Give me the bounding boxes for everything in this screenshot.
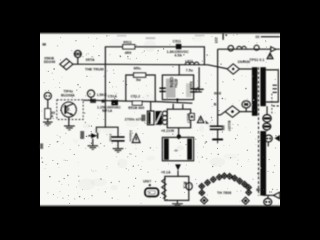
- wire L5KK stem: [90, 97, 92, 100]
- svg-text:MF1A: MF1A: [102, 109, 112, 113]
- inductor at IC left: [162, 111, 167, 116]
- wire R501 lead: [47, 119, 49, 122]
- transformer T502 right bar: [187, 139, 192, 160]
- wire top right rail: [218, 48, 271, 50]
- svg-text:SD246: SD246: [44, 60, 56, 64]
- svg-text:R511: R511: [123, 40, 131, 44]
- wire coil tail down: [198, 67, 200, 88]
- terminal E501 (circle): [74, 51, 81, 58]
- warning triangle top right: [267, 53, 273, 59]
- transformer T501 primary bar: [252, 67, 258, 116]
- svg-text:R51B 860: R51B 860: [128, 106, 144, 110]
- wire stub C517: [150, 102, 152, 111]
- terminal circle on rail 1: [228, 45, 234, 51]
- junction blob: [90, 99, 96, 103]
- svg-text:4.5A: 4.5A: [174, 53, 182, 57]
- faint header text: [117, 35, 127, 37]
- transformer T501 core (dashed): [258, 67, 260, 195]
- diode D512 (diamond): [225, 106, 240, 118]
- terminal circle above D512: [242, 101, 250, 108]
- svg-text:M5x.: M5x.: [134, 67, 142, 71]
- resistor R501: [45, 109, 51, 119]
- box HV: [266, 70, 278, 102]
- label near D502: [80, 131, 84, 139]
- transformer T501 secondary bar lower: [260, 131, 266, 196]
- svg-text:8: 8: [51, 114, 53, 118]
- stray mark 152: [222, 33, 224, 40]
- resistor R530 zigzag: [162, 178, 166, 198]
- svg-text:4R9: 4R9: [125, 51, 132, 55]
- svg-text:C51A: C51A: [108, 94, 118, 98]
- varistor Z501 (diamond): [60, 59, 73, 70]
- transformer T502 left bar: [164, 139, 169, 160]
- transformer T502 body: [162, 137, 193, 160]
- CRT socket pins: [199, 183, 205, 189]
- svg-text:05TA: 05TA: [86, 58, 95, 62]
- terminal tap 2: [263, 123, 271, 130]
- resistor R511: [123, 45, 135, 49]
- wire main bus: [83, 100, 192, 103]
- wire D512 to T501: [240, 111, 252, 113]
- wire top rail: [105, 47, 204, 100]
- wire cap branch: [178, 65, 180, 75]
- svg-text:B: B: [214, 103, 217, 107]
- transistor Q501: [61, 102, 76, 117]
- warning triangle right of IC: [197, 116, 203, 122]
- capacitor C515 plates: [159, 87, 165, 89]
- diode D503 block: [155, 111, 161, 125]
- stray label L: [40, 143, 43, 149]
- svg-text:6C8: 6C8: [214, 92, 222, 96]
- label small M: [141, 115, 145, 122]
- arrow down from T502: [175, 164, 181, 170]
- dashes horizontal right edge: [273, 105, 280, 107]
- warning triangle center: [132, 134, 140, 143]
- wire tap down: [266, 130, 268, 131]
- wire circle stem bottom: [267, 195, 269, 198]
- wire stub IC a: [172, 104, 174, 110]
- wire secondary bottom out: [263, 194, 273, 196]
- ground Q501: [64, 125, 75, 127]
- wire circle stem: [245, 108, 247, 112]
- svg-text:BU208A: BU208A: [61, 94, 75, 98]
- inductor L512: [237, 46, 247, 49]
- wire D502 branch: [96, 127, 105, 133]
- mark e-: [255, 36, 259, 39]
- wire bus 148: [217, 49, 219, 125]
- wire IC to T502: [178, 128, 180, 139]
- svg-text:C51C: C51C: [109, 134, 113, 143]
- polarity mark triangle: [196, 87, 200, 91]
- terminal circle on rail 2: [254, 45, 259, 50]
- wire top corner: [261, 36, 280, 38]
- svg-text:B115?: B115?: [227, 121, 231, 132]
- oval on R530 right: [186, 183, 192, 190]
- terminal J501: [44, 92, 51, 99]
- stray mark top-left: [42, 43, 46, 45]
- svg-text:TH 7806: TH 7806: [217, 191, 231, 195]
- wire E501 stem: [77, 57, 79, 64]
- arrow end of rail: [271, 47, 276, 52]
- wire D512 left: [218, 112, 226, 115]
- wire AC line: [73, 64, 227, 69]
- connector arrow 0: [274, 135, 280, 142]
- junction dot T502: [177, 134, 181, 138]
- ground C514: [113, 148, 124, 150]
- terminal tap 1: [263, 115, 271, 122]
- wire to R530 box: [177, 170, 179, 176]
- ground R530: [172, 203, 183, 205]
- svg-text:215: 215: [214, 37, 218, 43]
- transformer T501 secondary bar upper: [260, 67, 266, 106]
- capacitor C516 plates: [190, 88, 196, 90]
- wire R513 loop: [126, 75, 155, 102]
- terminal circle row0: [265, 135, 272, 142]
- wire D511 to T501: [239, 68, 251, 70]
- ground D502: [88, 145, 99, 147]
- wire R530 down: [176, 200, 178, 203]
- diode D502: [91, 133, 97, 138]
- capacitor C517: [147, 111, 154, 125]
- bar bottom tick: [256, 188, 259, 191]
- dashed box Q501: [57, 100, 83, 120]
- paper: [40, 33, 280, 206]
- dashed line right: [271, 94, 273, 114]
- ground left: [43, 121, 53, 123]
- svg-text:C511: C511: [173, 40, 181, 44]
- wire bus tail: [217, 129, 219, 138]
- battery icon: [145, 188, 158, 196]
- component at IC right: [190, 114, 195, 120]
- svg-text:TPS1 0.1: TPS1 0.1: [249, 58, 264, 62]
- wire J501 stem: [47, 100, 49, 109]
- wire stub IC b: [182, 104, 184, 109]
- dashes in HV box: [273, 84, 277, 86]
- terminal L5KK: [87, 90, 94, 97]
- svg-text:+5.1A: +5.1A: [161, 171, 171, 175]
- svg-text:L5KK: L5KK: [97, 93, 107, 97]
- terminal bottom circle: [264, 198, 272, 205]
- wire tap stem 1: [266, 106, 268, 115]
- wire center drop: [105, 100, 118, 136]
- wire circle row0 stem: [267, 142, 269, 146]
- soft band edges: [40, 32, 280, 35]
- arrow right of triangle: [205, 120, 209, 124]
- wire Q501 emitter: [68, 117, 70, 126]
- black letterbox background: [40, 0, 280, 240]
- wire loop bottom lead: [176, 100, 178, 104]
- connector arrow bottom: [273, 192, 279, 198]
- capacitor on bus bottom: [210, 125, 223, 127]
- filter cap loop: [162, 75, 193, 100]
- diode D511 (diamond): [227, 64, 239, 74]
- capacitor at coil tail: [195, 88, 204, 90]
- svg-text:THE TRUM: THE TRUM: [85, 67, 104, 71]
- ic box M515: [167, 109, 190, 128]
- box R530: [165, 176, 189, 200]
- wire D502 down: [92, 139, 94, 146]
- wire tap link: [266, 122, 268, 123]
- svg-text:7.5u: 7.5u: [186, 69, 193, 73]
- capacitor C514: [111, 136, 124, 138]
- svg-text:UNI?: UNI?: [143, 180, 151, 184]
- wire C514 down: [117, 141, 119, 148]
- ground bus: [212, 138, 223, 140]
